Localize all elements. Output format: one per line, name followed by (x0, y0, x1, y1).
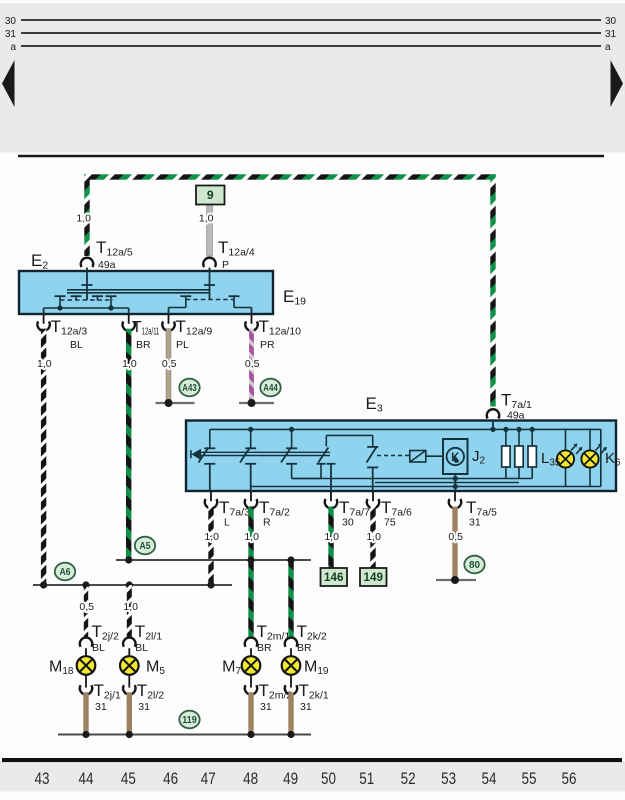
svg-text:43: 43 (35, 769, 50, 788)
svg-text:0,5: 0,5 (79, 601, 94, 613)
svg-text:1,0: 1,0 (76, 213, 91, 225)
svg-text:1,0: 1,0 (37, 358, 52, 370)
svg-text:47: 47 (201, 769, 216, 788)
svg-text:31: 31 (138, 701, 150, 713)
svg-text:30: 30 (605, 16, 617, 27)
svg-text:30: 30 (342, 517, 354, 529)
svg-text:52: 52 (401, 769, 416, 788)
svg-text:56: 56 (562, 769, 577, 788)
svg-text:119: 119 (182, 715, 197, 726)
svg-text:BL: BL (70, 339, 83, 351)
svg-text:46: 46 (163, 769, 178, 788)
svg-text:1,0: 1,0 (123, 601, 138, 613)
svg-text:45: 45 (121, 769, 136, 788)
svg-text:A43: A43 (182, 383, 197, 394)
svg-text:31: 31 (260, 701, 272, 713)
svg-text:BL: BL (92, 642, 105, 654)
svg-text:1,0: 1,0 (204, 531, 219, 543)
svg-text:R: R (263, 517, 271, 529)
svg-text:146: 146 (324, 570, 344, 584)
svg-text:30: 30 (5, 16, 17, 27)
svg-text:80: 80 (469, 560, 480, 571)
svg-text:1,0: 1,0 (366, 531, 381, 543)
svg-text:BR: BR (297, 642, 312, 654)
svg-text:1,0: 1,0 (244, 531, 259, 543)
svg-text:50: 50 (321, 769, 336, 788)
svg-text:BR: BR (136, 339, 151, 351)
svg-text:55: 55 (522, 769, 537, 788)
svg-text:49: 49 (283, 769, 298, 788)
svg-text:31: 31 (5, 29, 17, 40)
svg-text:53: 53 (441, 769, 456, 788)
svg-text:31: 31 (95, 701, 107, 713)
svg-text:P: P (222, 259, 229, 271)
svg-text:49a: 49a (98, 259, 116, 271)
svg-text:9: 9 (207, 188, 214, 202)
svg-text:75: 75 (384, 517, 396, 529)
svg-text:0,5: 0,5 (245, 358, 260, 370)
svg-text:PL: PL (176, 339, 189, 351)
svg-text:a: a (10, 42, 16, 53)
svg-text:1,0: 1,0 (199, 213, 214, 225)
svg-text:PR: PR (260, 339, 275, 351)
svg-text:BL: BL (135, 642, 148, 654)
svg-text:A6: A6 (60, 567, 71, 578)
svg-text:A44: A44 (263, 383, 278, 394)
svg-text:a: a (605, 42, 611, 53)
svg-text:L: L (224, 517, 230, 529)
svg-text:1,0: 1,0 (324, 531, 339, 543)
svg-text:31: 31 (300, 701, 312, 713)
svg-text:149: 149 (364, 570, 384, 584)
svg-text:44: 44 (79, 769, 94, 788)
svg-text:0,5: 0,5 (162, 358, 177, 370)
svg-text:A5: A5 (140, 541, 151, 552)
svg-text:0,5: 0,5 (448, 531, 463, 543)
svg-text:31: 31 (605, 29, 617, 40)
svg-text:31: 31 (469, 517, 481, 529)
svg-text:1,0: 1,0 (122, 358, 137, 370)
svg-text:51: 51 (359, 769, 374, 788)
svg-text:48: 48 (243, 769, 258, 788)
svg-text:54: 54 (482, 769, 497, 788)
svg-text:BR: BR (257, 642, 272, 654)
